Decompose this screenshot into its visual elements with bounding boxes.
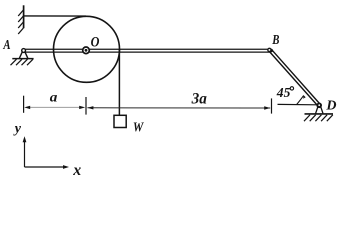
svg-text:W: W	[133, 120, 144, 135]
dimension line 3a with arrows	[87, 107, 270, 109]
support at D: legs	[316, 107, 318, 113]
rope: vertical segment to weight	[118, 50, 120, 116]
axis y with arrow	[24, 139, 26, 167]
angle arc arrowhead	[303, 95, 306, 98]
svg-text:A: A	[3, 38, 11, 53]
weight box W	[114, 115, 126, 127]
support at A: legs	[19, 52, 22, 58]
support at D: ground line	[305, 113, 334, 115]
wall support top-left: vertical line	[23, 5, 25, 28]
rope: horizontal segment from wall to pulley top	[24, 15, 86, 17]
pin at D dark hub	[316, 103, 322, 109]
dimension line a with arrows	[29, 106, 81, 108]
svg-text:3a: 3a	[191, 90, 207, 107]
axis x with arrow	[25, 166, 65, 168]
svg-text:D: D	[325, 99, 336, 114]
svg-text:B: B	[271, 33, 279, 48]
bar BD (double diagonal line)	[270, 50, 321, 107]
svg-text:x: x	[72, 162, 81, 176]
degree ring of 45 label	[290, 87, 293, 90]
dimension tick below B	[271, 98, 273, 113]
dimension tick below O	[85, 97, 87, 115]
dimension tick below A	[23, 96, 25, 113]
pulley circle	[54, 16, 120, 82]
bar AB end cap at B	[270, 49, 273, 53]
pin at A	[22, 49, 26, 53]
angle arc 45 deg	[297, 95, 304, 104]
svg-text:a: a	[50, 90, 58, 105]
wall support top-left: hatching	[18, 10, 23, 34]
pulley axle pin at O	[83, 47, 90, 54]
bar AB (double line)	[24, 49, 271, 52]
angle reference line at D	[278, 103, 318, 105]
support at D: hatching	[304, 115, 333, 121]
pin at D	[318, 104, 321, 107]
pin at B	[268, 48, 271, 51]
svg-text:y: y	[13, 122, 22, 137]
bar AB end cap at A	[21, 49, 24, 53]
support at A: hatching	[11, 59, 34, 65]
svg-text:O: O	[91, 34, 100, 50]
support at A: ground line	[12, 58, 33, 60]
svg-text:45: 45	[276, 86, 291, 101]
